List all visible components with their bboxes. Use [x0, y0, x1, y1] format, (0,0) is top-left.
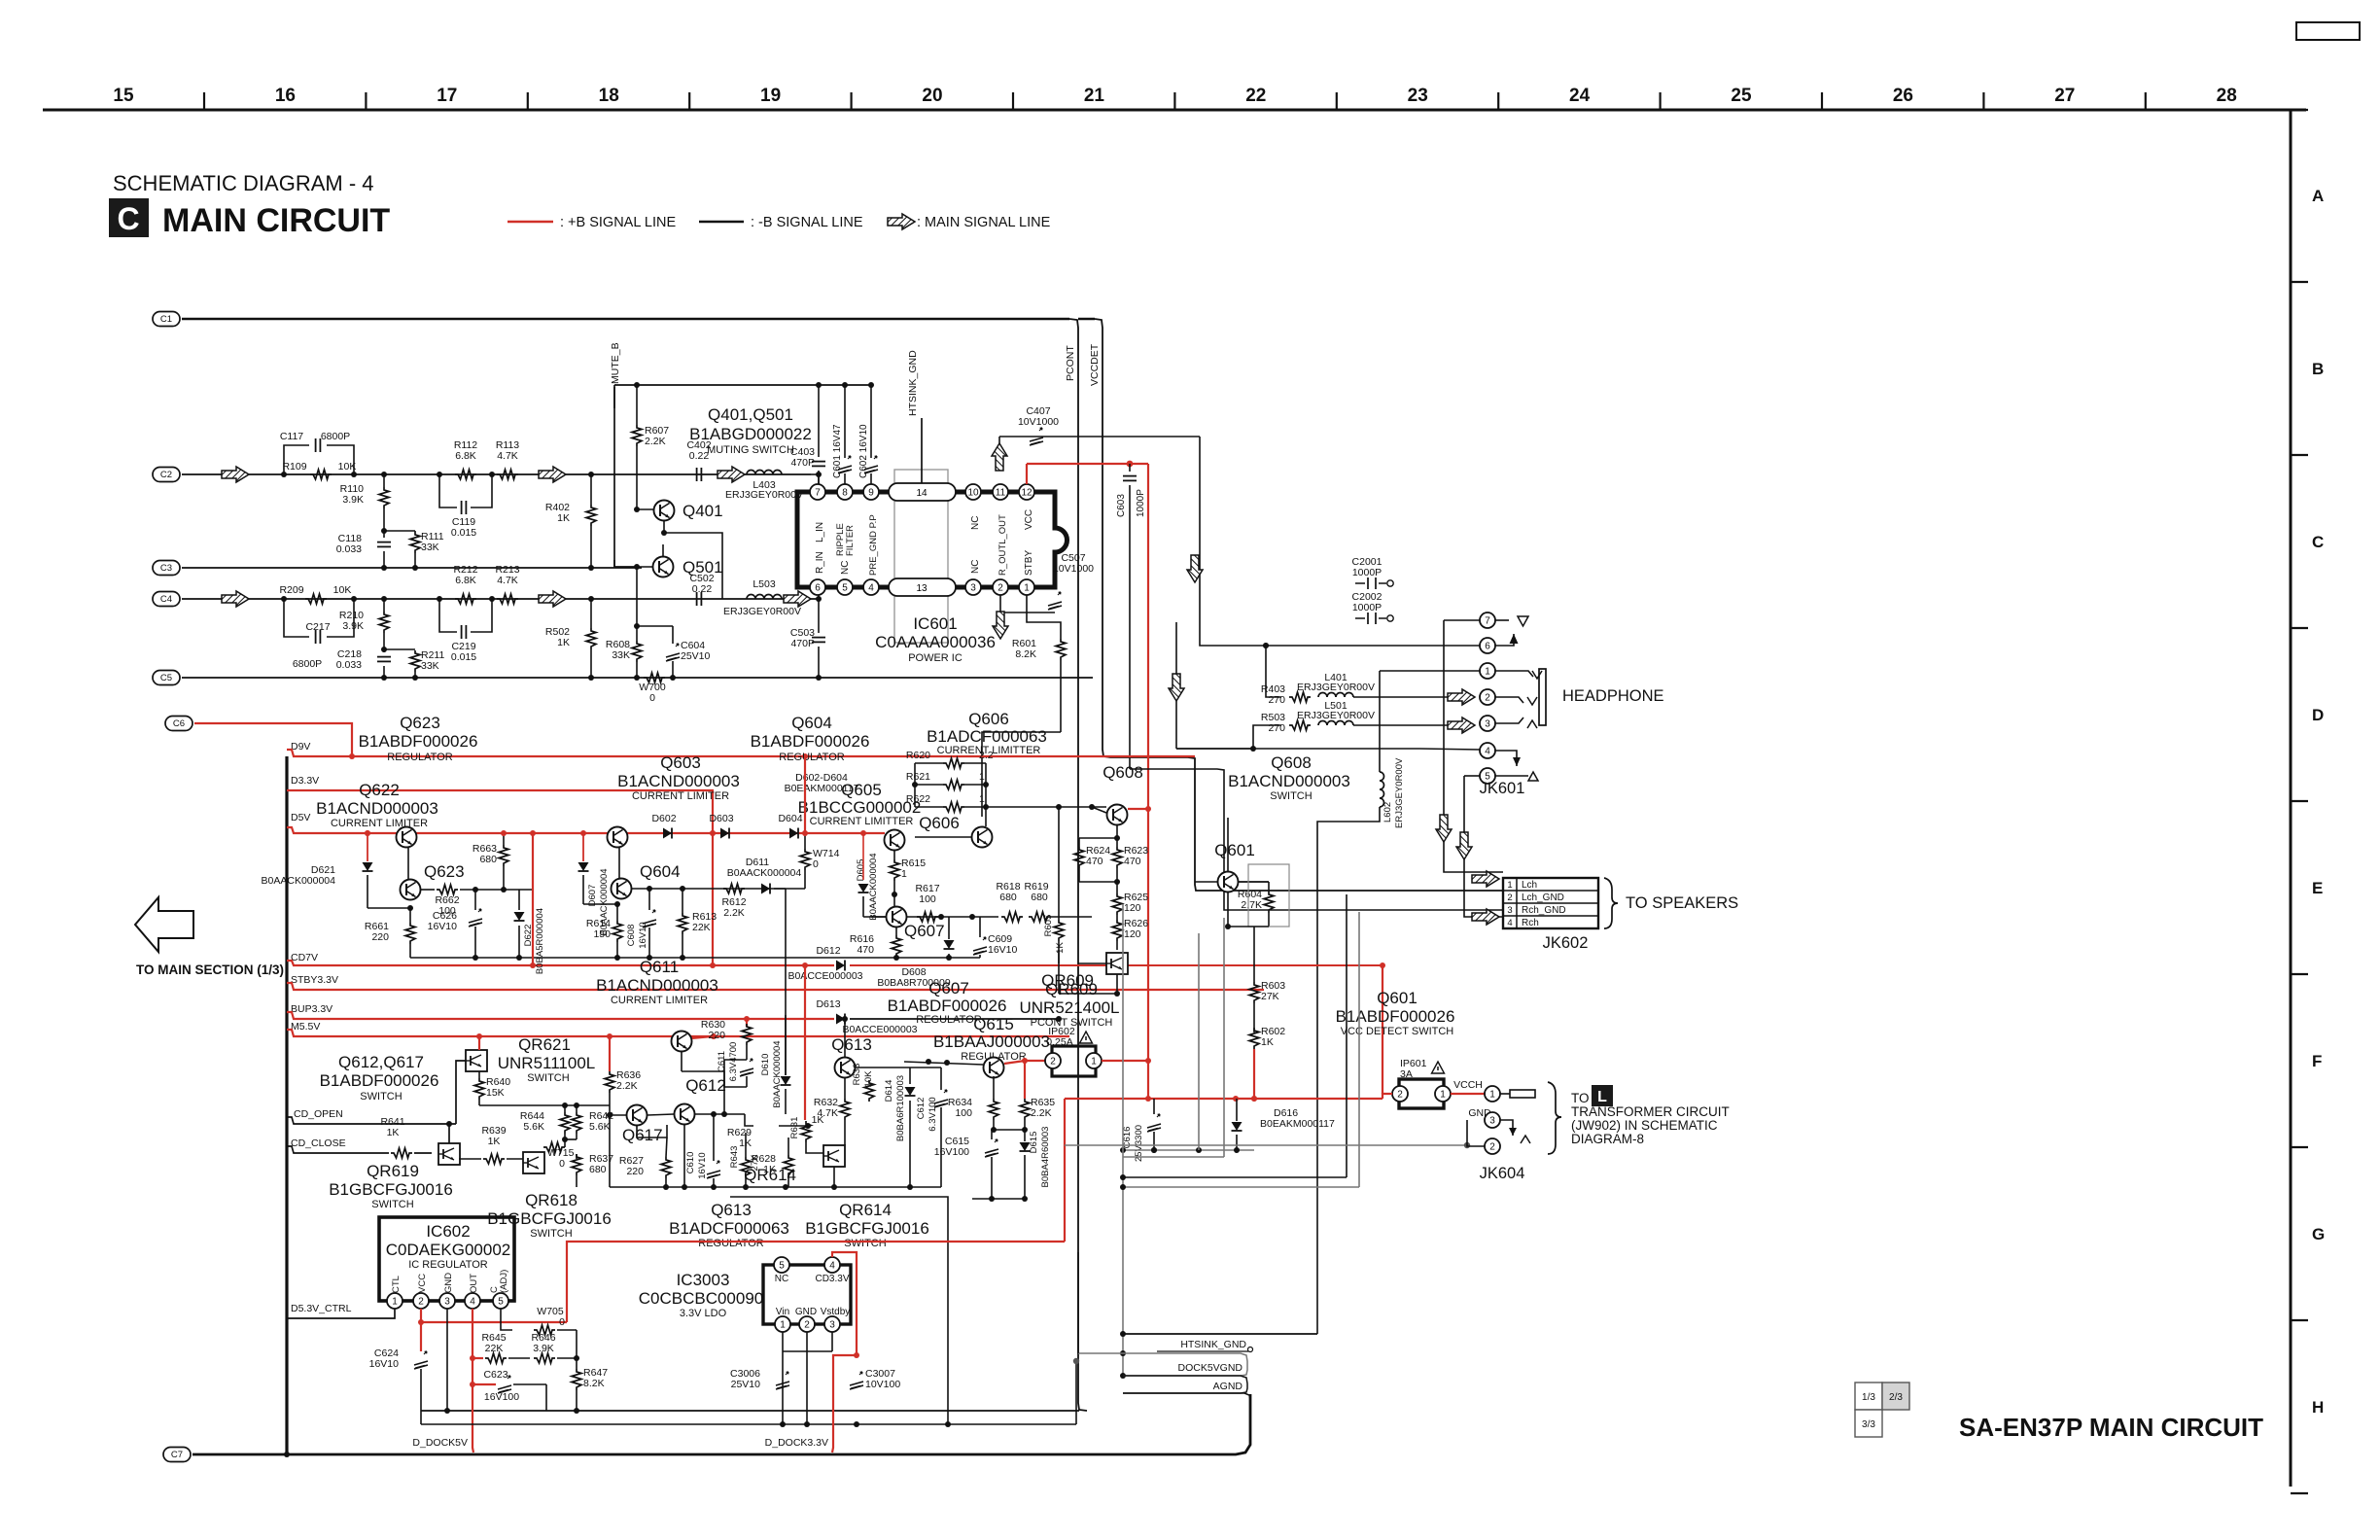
- transistor Q613: [835, 1058, 856, 1078]
- svg-text:16V100: 16V100: [484, 1391, 519, 1403]
- svg-text:25: 25: [1731, 86, 1752, 106]
- svg-text:0.015: 0.015: [451, 651, 476, 663]
- wire C407 to pin6 loop: [1200, 437, 1481, 646]
- red wire IC602 VCC net: [420, 1309, 422, 1322]
- svg-text:C608: C608: [626, 925, 637, 947]
- svg-text:1: 1: [901, 868, 907, 880]
- svg-text:4.7K: 4.7K: [817, 1107, 838, 1119]
- IC3003 pin 2: [799, 1316, 815, 1332]
- resistor W714 0: [804, 833, 806, 849]
- IC601 pin 1: [1019, 579, 1034, 595]
- resistor R502 1K: [588, 596, 594, 602]
- IC3003 pin 3: [824, 1316, 840, 1332]
- svg-text:6: 6: [1485, 641, 1490, 651]
- connector C6: [165, 717, 192, 731]
- svg-text:26: 26: [1893, 86, 1913, 106]
- resistor R213 4.7K: [497, 594, 518, 604]
- svg-text:2: 2: [1050, 1056, 1056, 1067]
- svg-text:D614: D614: [884, 1080, 894, 1102]
- svg-text:120: 120: [1124, 902, 1141, 914]
- svg-text:SCHEMATIC DIAGRAM - 4: SCHEMATIC DIAGRAM - 4: [113, 171, 374, 195]
- resistor W715 0: [543, 1142, 565, 1152]
- svg-text:11: 11: [996, 487, 1006, 498]
- capacitor C623 16V100 polarized: [498, 1376, 511, 1393]
- svg-text:VCC: VCC: [1024, 509, 1034, 530]
- svg-text:6800P: 6800P: [293, 658, 322, 670]
- svg-text:CURRENT LIMITER: CURRENT LIMITER: [331, 818, 428, 829]
- svg-text:3.9K: 3.9K: [342, 620, 364, 632]
- IC601 pin 10: [965, 484, 981, 500]
- svg-text:UNR511100L: UNR511100L: [498, 1054, 596, 1072]
- svg-text:M5.5V: M5.5V: [291, 1021, 320, 1032]
- svg-text:C602 16V10: C602 16V10: [858, 424, 869, 478]
- resistor R623 470: [1112, 847, 1122, 868]
- svg-text:R622: R622: [906, 793, 930, 805]
- IC3003 pin 1: [775, 1316, 790, 1332]
- svg-text:2: 2: [1489, 1141, 1495, 1152]
- wire bottom rail 2 (1231): [730, 1197, 948, 1424]
- svg-text:D_DOCK5V: D_DOCK5V: [412, 1437, 468, 1449]
- wire R644/R642 to W715: [564, 1139, 566, 1147]
- transistor Q622: [397, 827, 417, 848]
- red rail mid 1130: [1065, 1098, 1382, 1100]
- svg-text:4: 4: [868, 582, 874, 593]
- svg-text:4: 4: [1485, 746, 1490, 756]
- svg-text:SWITCH: SWITCH: [371, 1199, 413, 1210]
- svg-text:5.6K: 5.6K: [523, 1121, 544, 1133]
- grey gnd rail 1183: [1123, 1149, 1254, 1151]
- svg-text:6: 6: [815, 582, 821, 593]
- connector C4: [153, 592, 180, 607]
- svg-text:QR609: QR609: [1045, 980, 1098, 998]
- connector C3: [153, 561, 180, 576]
- svg-text:MAIN CIRCUIT: MAIN CIRCUIT: [162, 202, 390, 239]
- svg-text:: -B SIGNAL LINE: : -B SIGNAL LINE: [751, 215, 863, 230]
- svg-text:Q623: Q623: [424, 862, 465, 881]
- wire Q611 emitter to Q612: [681, 1051, 682, 1071]
- hatched arrow down JK602 Lch: [1436, 815, 1452, 842]
- svg-text:E: E: [2312, 879, 2323, 897]
- svg-text:D5V: D5V: [291, 812, 310, 823]
- inductor L503 ERJ3GEY0R00V: [747, 595, 782, 600]
- svg-text:H: H: [2312, 1398, 2324, 1417]
- svg-text:NC: NC: [970, 516, 981, 530]
- wire top loop rail: [614, 384, 871, 386]
- svg-text:R605: R605: [1043, 915, 1054, 937]
- svg-text:TO: TO: [1571, 1091, 1590, 1105]
- svg-text:F: F: [2312, 1052, 2322, 1070]
- wire Q622-Q623 link: [407, 848, 409, 879]
- svg-text:13: 13: [916, 583, 927, 594]
- wire Q501 collector: [662, 544, 664, 556]
- resistor R211 33K: [384, 648, 415, 650]
- resistor R616 470: [895, 927, 897, 935]
- svg-text:1/3: 1/3: [1862, 1392, 1875, 1403]
- svg-text:3/3: 3/3: [1862, 1419, 1875, 1430]
- svg-text:2.2K: 2.2K: [723, 907, 745, 919]
- resistor R626 120: [1112, 920, 1122, 941]
- svg-text:Q607: Q607: [904, 922, 945, 940]
- wire C603 lower route to JK602: [1130, 769, 1503, 910]
- svg-text:C0DAEKG00002: C0DAEKG00002: [386, 1241, 511, 1259]
- svg-text:3.3V LDO: 3.3V LDO: [680, 1308, 727, 1319]
- resistor R637 680: [576, 1154, 577, 1159]
- capacitor C611 6.3V4700 polarized: [740, 1059, 753, 1076]
- wire C2 into pin7: [811, 473, 819, 475]
- svg-text:B1ACND000003: B1ACND000003: [617, 772, 740, 790]
- IC602 pin 4: [465, 1293, 480, 1309]
- svg-text:SWITCH: SWITCH: [527, 1072, 569, 1084]
- svg-text:TRANSFORMER CIRCUIT: TRANSFORMER CIRCUIT: [1571, 1104, 1730, 1119]
- svg-text:REGULATOR: REGULATOR: [387, 752, 452, 763]
- svg-text:0.22: 0.22: [692, 583, 713, 595]
- zener D615 B0BA4R60003: [1020, 1142, 1031, 1151]
- JK601 pin 4: [1480, 743, 1495, 758]
- red rail STBY3.3V: [287, 983, 1264, 990]
- svg-text:B0EAKM000117: B0EAKM000117: [1260, 1118, 1335, 1130]
- red wire D_DOCK5V: [472, 1384, 473, 1452]
- JK604 bracket: [1548, 1082, 1561, 1154]
- wire Q601 emitter down: [1227, 892, 1229, 927]
- wire JK601 pin5 to JK602 Rch: [1464, 776, 1503, 917]
- signal arrow JK602 Lch: [1472, 871, 1499, 887]
- transistor Q604: [612, 879, 632, 899]
- svg-text:2: 2: [1397, 1089, 1403, 1100]
- svg-text:Lch_GND: Lch_GND: [1522, 892, 1564, 903]
- resistor R625 120: [1112, 893, 1122, 915]
- svg-text:R631: R631: [789, 1117, 800, 1139]
- svg-text:9: 9: [868, 487, 874, 498]
- JK602 bracket: [1604, 878, 1618, 928]
- svg-text:6.8K: 6.8K: [455, 575, 476, 586]
- svg-text:C611: C611: [717, 1051, 727, 1072]
- svg-text:10K: 10K: [338, 461, 357, 472]
- resistor ladder R621 1: [915, 784, 943, 786]
- svg-text:VCC DETECT SWITCH: VCC DETECT SWITCH: [1341, 1026, 1454, 1037]
- svg-text:C612: C612: [916, 1098, 927, 1120]
- red rail D3.3V: [287, 790, 713, 965]
- resistor R615 1: [893, 851, 895, 859]
- svg-text:D613: D613: [816, 998, 840, 1010]
- IC601 pin 12: [1019, 484, 1034, 500]
- resistor R624 470: [1078, 838, 1080, 847]
- svg-text:120: 120: [1124, 928, 1141, 940]
- resistor R602 1K: [1249, 1028, 1259, 1049]
- wire Q608 base route: [1092, 807, 1106, 813]
- svg-text:17: 17: [437, 86, 457, 106]
- signal arrow C4: [222, 591, 249, 607]
- resistor R636 2.2K: [609, 1036, 611, 1071]
- svg-text:C117: C117: [280, 431, 303, 442]
- zener D608 B0BA8R700009: [944, 940, 955, 949]
- svg-text:L: L: [1597, 1089, 1607, 1105]
- svg-text:B1ADCF000063: B1ADCF000063: [927, 727, 1047, 746]
- svg-text:C6: C6: [173, 718, 185, 729]
- svg-text:C623: C623: [483, 1369, 507, 1381]
- transistor Q617: [627, 1105, 647, 1126]
- svg-text:19: 19: [760, 86, 781, 106]
- svg-text:AGND: AGND: [1213, 1381, 1243, 1392]
- IC601 pin 2: [993, 579, 1008, 595]
- capacitor C602 16V10 polarized: [870, 385, 872, 458]
- capacitor C502 0.22: [697, 592, 702, 606]
- red rail M5.5V: [287, 1030, 1069, 1036]
- svg-text:CD_CLOSE: CD_CLOSE: [291, 1137, 346, 1149]
- diode D616 B0EAKM000117: [1232, 1122, 1242, 1131]
- transistor Q601: [1218, 872, 1239, 892]
- svg-text:4: 4: [470, 1296, 475, 1307]
- resistor W700 0 jumper: [644, 673, 665, 682]
- svg-text:680: 680: [999, 892, 1017, 903]
- transistor Q615: [984, 1058, 1004, 1078]
- svg-text:D612: D612: [816, 945, 840, 957]
- wire Q613 emitter net: [856, 1067, 910, 1068]
- wire Q617/Q612 links: [647, 1114, 674, 1115]
- svg-text:5.6K: 5.6K: [589, 1121, 611, 1133]
- wire Q615 base rail: [904, 1062, 983, 1065]
- capacitor C626 16V10 polarized: [474, 890, 476, 910]
- wire Q613 collector/base: [844, 1019, 846, 1057]
- resistor R619 680: [1029, 912, 1050, 922]
- svg-text:Q601: Q601: [1214, 841, 1255, 859]
- wire R640 to rail: [479, 1104, 565, 1106]
- svg-text:16V10: 16V10: [428, 921, 458, 932]
- svg-text:C1: C1: [160, 314, 172, 325]
- svg-text:B0BA5R000004: B0BA5R000004: [535, 908, 545, 974]
- svg-text:1K: 1K: [387, 1127, 400, 1138]
- capacitor C601 16V47 polarized: [844, 385, 846, 458]
- red wire CD3.3V riser: [832, 1252, 857, 1355]
- resistor R403 270: [1289, 692, 1311, 702]
- svg-text:1: 1: [1091, 1056, 1097, 1067]
- svg-text:HTSINK_GND: HTSINK_GND: [1180, 1339, 1246, 1350]
- svg-text:D_DOCK3.3V: D_DOCK3.3V: [765, 1437, 828, 1449]
- svg-text:27: 27: [2054, 86, 2075, 106]
- svg-text:0.033: 0.033: [336, 659, 362, 671]
- svg-text:OUT: OUT: [469, 1274, 479, 1293]
- svg-text:5: 5: [779, 1260, 785, 1271]
- svg-text:8.2K: 8.2K: [1015, 648, 1036, 660]
- svg-text:3.9K: 3.9K: [342, 494, 364, 506]
- JK601 jack bar: [1539, 669, 1546, 725]
- svg-text:16V10: 16V10: [638, 922, 648, 948]
- svg-text:7: 7: [815, 487, 821, 498]
- inductor L403 ERJ3GEY0R00V: [747, 471, 782, 475]
- svg-text:1: 1: [1485, 666, 1490, 677]
- svg-text:12: 12: [1021, 487, 1032, 498]
- JK602 connector box: [1503, 878, 1598, 928]
- red wire D9V to D5V link: [804, 756, 806, 833]
- svg-text:R109: R109: [282, 461, 306, 472]
- svg-text:IC602: IC602: [426, 1222, 470, 1241]
- resistor R212 6.8K: [455, 594, 476, 604]
- svg-text:GND: GND: [443, 1273, 454, 1293]
- wire pin3/pin1 link rail: [783, 1350, 832, 1352]
- wire Q401 emitter loop: [664, 521, 722, 599]
- wire Q607 base red: [863, 916, 886, 918]
- wire pin5 ADJ: [501, 1309, 512, 1330]
- resistor R607 2.2K: [636, 385, 638, 425]
- svg-text:Q608: Q608: [1271, 753, 1312, 772]
- svg-text:MUTE_B: MUTE_B: [610, 342, 621, 384]
- svg-text:UNR521400L: UNR521400L: [1019, 998, 1119, 1017]
- diode D611 B0AACK000004: [761, 884, 770, 894]
- svg-text:8.2K: 8.2K: [583, 1378, 605, 1389]
- wire vertical 808 to D610: [785, 889, 787, 1075]
- svg-text:TO MAIN SECTION (1/3): TO MAIN SECTION (1/3): [136, 962, 284, 977]
- svg-text:1000P: 1000P: [1352, 567, 1382, 578]
- resistor R601 8.2K: [1027, 595, 1061, 639]
- svg-text:NC: NC: [970, 560, 981, 574]
- IC601 pin 5: [837, 579, 853, 595]
- page indicator grid 1/3 2/3 3/3: [1855, 1382, 1882, 1410]
- svg-text:QR614: QR614: [839, 1201, 892, 1219]
- grey vertical 1155: [1122, 904, 1124, 1376]
- svg-text:100: 100: [919, 893, 936, 905]
- resistor R647 8.2K: [572, 1369, 581, 1390]
- resistor W705 0: [534, 1325, 555, 1335]
- red wire Q615 collector to IP602: [1004, 1061, 1045, 1064]
- svg-text:HEADPHONE: HEADPHONE: [1562, 687, 1664, 705]
- IC601 tab pin 14: [889, 483, 956, 501]
- svg-text:1000P: 1000P: [1352, 602, 1382, 613]
- red rail D9V: [287, 750, 1195, 756]
- svg-text:REGULATOR: REGULATOR: [916, 1014, 981, 1026]
- wire Q607 gnd rail: [894, 957, 980, 959]
- section letter C box: [109, 198, 149, 237]
- wire IC602 gnd rail: [420, 1410, 422, 1412]
- resistor R628 1K: [784, 1155, 793, 1176]
- svg-text:470: 470: [857, 944, 874, 956]
- svg-text:4.7K: 4.7K: [497, 450, 518, 462]
- resistor ladder R622 1: [915, 806, 943, 808]
- wire JK601 pin1 feed: [1380, 670, 1480, 672]
- wire C2 rail: [182, 473, 811, 475]
- resistor R608 33K: [636, 567, 638, 641]
- svg-text:10: 10: [967, 487, 979, 498]
- svg-text:22: 22: [1245, 86, 1266, 106]
- JK601 pin 5: [1480, 768, 1495, 784]
- svg-text:1K: 1K: [557, 637, 570, 648]
- red wire D5V down to CD7V: [532, 833, 534, 965]
- JK604 contact: [1509, 1128, 1517, 1136]
- svg-text:ERJ3GEY0R00V: ERJ3GEY0R00V: [1297, 682, 1375, 693]
- IC601 tab pin 13: [889, 578, 956, 596]
- svg-text:150: 150: [593, 928, 611, 940]
- svg-text:QR619: QR619: [367, 1162, 419, 1180]
- red rail D5V: [287, 827, 885, 833]
- inductor L501 ERJ3GEY0R00V: [1318, 721, 1353, 726]
- svg-text:10V1000: 10V1000: [1018, 416, 1059, 428]
- svg-text:0.015: 0.015: [451, 527, 476, 539]
- svg-text:B: B: [2312, 360, 2324, 378]
- svg-text:0.033: 0.033: [336, 543, 362, 555]
- IC602 pin 1: [387, 1293, 402, 1309]
- svg-text:24: 24: [1569, 86, 1591, 106]
- capacitor C624 16V10 polarized: [420, 1322, 422, 1351]
- svg-text:R_OUTL_OUT: R_OUTL_OUT: [997, 514, 1008, 576]
- svg-text:IC3003: IC3003: [677, 1271, 730, 1289]
- resistor R627 220: [661, 1157, 671, 1178]
- svg-text:3: 3: [970, 582, 976, 593]
- svg-text:POWER IC: POWER IC: [908, 652, 962, 664]
- svg-text:STBY: STBY: [1024, 550, 1034, 576]
- capacitor C217 6800P bridge: [284, 599, 309, 637]
- diode D612 B0ACCE000003 on CD7V: [836, 961, 845, 971]
- wire C3 rail: [182, 567, 642, 569]
- svg-text:D5.3V_CTRL: D5.3V_CTRL: [291, 1303, 352, 1314]
- zener D622 B0BA5R000004: [518, 890, 520, 910]
- svg-text:REGULATOR: REGULATOR: [779, 752, 844, 763]
- svg-text:VCCH: VCCH: [1453, 1079, 1483, 1091]
- svg-text:16V10: 16V10: [697, 1152, 708, 1178]
- diode D603: [720, 828, 729, 839]
- transistor Q611: [672, 1032, 692, 1052]
- digital transistor QR614: [823, 1145, 845, 1167]
- svg-text:DOCK5VGND: DOCK5VGND: [1177, 1362, 1242, 1374]
- red wire to IP601: [1382, 1094, 1392, 1099]
- svg-text:: MAIN SIGNAL LINE: : MAIN SIGNAL LINE: [917, 215, 1051, 230]
- svg-text:33K: 33K: [421, 660, 439, 672]
- JK601 contact marks: [1532, 671, 1542, 679]
- svg-text:Q623: Q623: [400, 714, 440, 732]
- IC601 pin 8: [837, 484, 853, 500]
- svg-text:20: 20: [922, 86, 942, 106]
- wire C7 rail: [192, 1394, 1250, 1454]
- svg-text:SA-EN37P MAIN CIRCUIT: SA-EN37P MAIN CIRCUIT: [1959, 1413, 2263, 1442]
- svg-text:1K: 1K: [488, 1136, 501, 1147]
- wire Q615 cluster gnd: [972, 1198, 1027, 1200]
- resistor R632 4.7K: [840, 1099, 850, 1120]
- connector C1: [153, 312, 180, 327]
- svg-text:0: 0: [649, 692, 655, 704]
- svg-text:B0BA4R60003: B0BA4R60003: [1040, 1127, 1051, 1188]
- svg-text:C603: C603: [1116, 494, 1127, 517]
- wire C5 rail: [182, 677, 1093, 679]
- svg-text:1K: 1K: [557, 512, 570, 524]
- svg-text:: +B SIGNAL LINE: : +B SIGNAL LINE: [560, 215, 676, 230]
- svg-text:C0CBCBC00090: C0CBCBC00090: [639, 1289, 764, 1308]
- svg-text:D9V: D9V: [291, 741, 310, 752]
- svg-text:10V100: 10V100: [865, 1379, 900, 1390]
- resistor R663 680: [503, 833, 505, 845]
- resistor R111 33K: [384, 530, 415, 532]
- svg-text:14: 14: [916, 488, 927, 499]
- resistor R661 220: [407, 905, 413, 911]
- svg-text:FILTER: FILTER: [845, 525, 856, 556]
- JK604 plug bar: [1510, 1090, 1535, 1098]
- svg-text:680: 680: [479, 854, 497, 865]
- transistor Q401: [634, 507, 640, 512]
- IC601 body outline: [797, 492, 1067, 587]
- capacitor C615 16V100 polarized: [985, 1139, 998, 1157]
- svg-text:25V10: 25V10: [681, 650, 711, 662]
- wire D5.3V_CTRL to pin1: [287, 1309, 395, 1318]
- red wire Q608 collector: [1128, 808, 1148, 810]
- signal arrow C4 mid: [539, 591, 566, 607]
- legend +B signal line: [507, 221, 553, 223]
- svg-text:4: 4: [1507, 918, 1512, 928]
- svg-text:Q401,Q501: Q401,Q501: [708, 405, 793, 424]
- wire Q608 emitter chain: [1116, 825, 1118, 838]
- svg-text:6.3V4700: 6.3V4700: [728, 1042, 739, 1082]
- svg-text:6.8K: 6.8K: [455, 450, 476, 462]
- wire Q603-Q604 link: [618, 848, 620, 878]
- resistor R634 100: [989, 1099, 998, 1120]
- svg-text:1: 1: [1489, 1089, 1495, 1100]
- wire R636 bottom to rail: [609, 1115, 611, 1187]
- svg-text:VCC: VCC: [417, 1274, 428, 1293]
